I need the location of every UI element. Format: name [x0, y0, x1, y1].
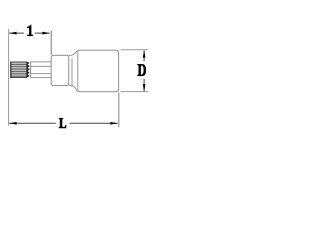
technical drawing: screwdriver bit socket, dimensions l, D, L [0, 0, 150, 150]
arrow down of D [143, 84, 146, 91]
extension lines of dim D [121, 50, 148, 92]
collar (bit holder nose) [51, 55, 68, 85]
spline run-out zigzag [26, 62, 29, 79]
extension line left (tip of bit) [8, 29, 10, 126]
extension line right of dim l (collar face) [50, 31, 52, 55]
extension line right of dim L (socket rear) [118, 92, 120, 127]
body front tangent edge [77, 51, 79, 92]
bit tip left edge [10, 62, 12, 79]
dim line D (right) [143, 51, 145, 92]
label L [59, 118, 67, 128]
dim line L (bottom) [9, 122, 117, 124]
transition curve bottom [69, 85, 79, 91]
shank shoulder line [30, 62, 32, 78]
splined bit tip: ribbed gray block [10, 62, 26, 79]
arrow left of L [9, 122, 16, 125]
arrow left of l [9, 32, 16, 35]
label D [137, 64, 146, 76]
step edge between collar and body [71, 58, 73, 86]
rib dark lines [10, 64, 26, 76]
rib light highlights [10, 63, 26, 75]
arrow up of D [143, 50, 146, 57]
transition curve top [69, 50, 79, 55]
arrow right of l [42, 32, 49, 35]
label l [27, 25, 33, 36]
dim line l (top) [9, 32, 49, 34]
rib block top and bottom edges [10, 62, 26, 78]
hex shank lines [31, 62, 52, 78]
arrow right of L [110, 122, 117, 125]
socket body [78, 50, 119, 91]
